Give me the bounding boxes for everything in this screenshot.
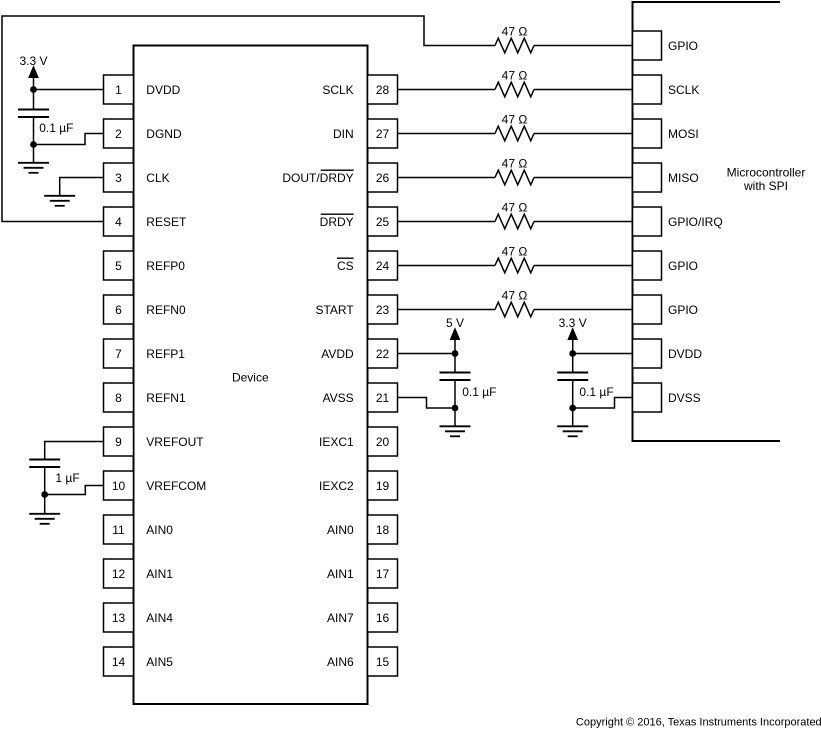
svg-text:19: 19 [376, 479, 390, 493]
wire resistor to microcontroller [534, 89, 633, 91]
wire resistor to microcontroller [534, 177, 633, 179]
capacitor C3 0.1 &#181;F [557, 373, 613, 400]
wire to microcontroller DVDD [573, 353, 633, 355]
pin 14 box [104, 647, 134, 676]
wire resistor to microcontroller [534, 309, 633, 311]
pin 17 box [368, 559, 398, 588]
wire resistor to microcontroller [534, 265, 633, 267]
svg-text:0.1 µF: 0.1 µF [579, 385, 613, 399]
svg-text:47 Ω: 47 Ω [502, 288, 528, 302]
microcontroller pin box MISO [633, 163, 662, 192]
svg-text:REFP0: REFP0 [146, 259, 185, 273]
pin 24 label CS [337, 258, 354, 273]
svg-text:14: 14 [112, 655, 126, 669]
pin 21 label AVSS [323, 391, 354, 405]
svg-text:AIN7: AIN7 [327, 611, 354, 625]
svg-text:26: 26 [376, 171, 390, 185]
wire to pin 1 DVDD [34, 89, 104, 91]
supply VDD2 5 V [446, 316, 464, 340]
ground GND3 [29, 514, 60, 524]
svg-text:10: 10 [112, 479, 126, 493]
svg-text:9: 9 [115, 435, 122, 449]
pin 27 label DIN [333, 127, 354, 141]
pin 28 label SCLK [322, 83, 353, 97]
wire to pin 2 DGND [34, 134, 104, 145]
svg-text:VREFCOM: VREFCOM [146, 479, 206, 493]
svg-text:GPIO: GPIO [668, 259, 698, 273]
svg-text:25: 25 [376, 215, 390, 229]
svg-text:3.3 V: 3.3 V [19, 54, 47, 68]
svg-text:0.1 µF: 0.1 µF [462, 385, 496, 399]
svg-text:DRDY: DRDY [320, 215, 354, 229]
svg-text:47 Ω: 47 Ω [502, 68, 528, 82]
svg-text:16: 16 [376, 611, 390, 625]
svg-text:DVDD: DVDD [146, 83, 180, 97]
microcontroller pin box MOSI [633, 119, 662, 148]
svg-text:8: 8 [115, 391, 122, 405]
ground GND4 [440, 426, 471, 436]
pin 16 label AIN7 [327, 611, 354, 625]
resistor R4 47 &#937; [495, 156, 534, 185]
wire 3.3V stem to C3 [572, 330, 574, 373]
pin 20 label IEXC1 [319, 435, 354, 449]
pin 1 box [104, 75, 134, 104]
svg-text:18: 18 [376, 523, 390, 537]
pin 18 box [368, 515, 398, 544]
wire pin 21 AVSS jog [398, 398, 456, 409]
wire to pin 10 VREFCOM [45, 486, 104, 495]
pin 21 box [368, 383, 398, 412]
svg-text:27: 27 [376, 127, 390, 141]
pin 23 box [368, 295, 398, 324]
microcontroller box [633, 2, 781, 441]
svg-text:3: 3 [115, 171, 122, 185]
wire resistor R1 to microcontroller GPIO [534, 45, 633, 47]
wire to microcontroller DVSS jog [573, 398, 633, 409]
pin 20 box [368, 427, 398, 456]
svg-text:AIN0: AIN0 [327, 523, 354, 537]
wire pin 27 to resistor [398, 133, 496, 135]
pin 11 box [104, 515, 134, 544]
ground GND5 [557, 426, 588, 436]
resistor R1 47 &#937; [495, 24, 534, 53]
pin 25 box [368, 207, 398, 236]
pin 22 box [368, 339, 398, 368]
svg-text:13: 13 [112, 611, 126, 625]
svg-text:RESET: RESET [146, 215, 187, 229]
pin 16 box [368, 603, 398, 632]
wire pin 9 VREFOUT to C5 [45, 442, 104, 461]
pin 12 box [104, 559, 134, 588]
svg-text:AVSS: AVSS [323, 391, 354, 405]
svg-text:3.3 V: 3.3 V [559, 316, 587, 330]
svg-text:with SPI: with SPI [743, 179, 788, 193]
svg-text:24: 24 [376, 259, 390, 273]
svg-text:AVDD: AVDD [321, 347, 354, 361]
svg-text:47 Ω: 47 Ω [502, 112, 528, 126]
pin 6 box [104, 295, 134, 324]
svg-text:AIN1: AIN1 [327, 567, 354, 581]
svg-text:AIN4: AIN4 [146, 611, 173, 625]
capacitor C1 0.1 &#181;F [18, 110, 73, 135]
svg-text:47 Ω: 47 Ω [502, 156, 528, 170]
wire pin 28 to resistor [398, 89, 496, 91]
svg-text:22: 22 [376, 347, 390, 361]
svg-text:23: 23 [376, 303, 390, 317]
svg-text:4: 4 [115, 215, 122, 229]
svg-text:REFP1: REFP1 [146, 347, 185, 361]
svg-text:IEXC1: IEXC1 [319, 435, 354, 449]
svg-text:REFN0: REFN0 [146, 303, 186, 317]
wire pin 26 to resistor [398, 177, 496, 179]
wire 5V stem to C2 [454, 330, 456, 373]
svg-text:GPIO: GPIO [668, 303, 698, 317]
svg-text:1 µF: 1 µF [55, 471, 79, 485]
svg-text:VREFOUT: VREFOUT [146, 435, 204, 449]
svg-text:15: 15 [376, 655, 390, 669]
wire pin 3 CLK to ground [60, 178, 104, 197]
wire to pin 22 AVDD [398, 353, 456, 355]
pin 25 label DRDY [320, 214, 354, 229]
wire pin 25 to resistor [398, 221, 496, 223]
svg-text:AIN1: AIN1 [146, 567, 173, 581]
pin 26 label DOUT-DRDY [282, 170, 353, 185]
supply VDD1 3.3 V [19, 54, 47, 78]
pin 5 box [104, 251, 134, 280]
svg-text:DIN: DIN [333, 127, 354, 141]
pin 28 box [368, 75, 398, 104]
svg-text:Device: Device [232, 370, 269, 384]
device U1 box [134, 46, 368, 705]
pin 10 box [104, 471, 134, 500]
svg-text:Microcontroller: Microcontroller [727, 165, 806, 179]
resistor R3 47 &#937; [495, 112, 534, 141]
ground GND1 [18, 163, 49, 173]
svg-text:2: 2 [115, 127, 122, 141]
pin 13 box [104, 603, 134, 632]
wire C3 to ground [572, 380, 574, 427]
svg-text:DOUT/DRDY: DOUT/DRDY [282, 171, 353, 185]
svg-text:47 Ω: 47 Ω [502, 200, 528, 214]
microcontroller pin box GPIO [633, 295, 662, 324]
junction J2 [30, 141, 37, 148]
pin 24 box [368, 251, 398, 280]
svg-text:1: 1 [115, 83, 122, 97]
wire C2 to ground [454, 380, 456, 427]
svg-text:17: 17 [376, 567, 390, 581]
resistor R5 47 &#937; [495, 200, 534, 229]
microcontroller pin box GPIO [633, 31, 662, 60]
pin 23 label START [315, 303, 354, 317]
svg-text:DVDD: DVDD [668, 347, 702, 361]
wire pin 24 to resistor [398, 265, 496, 267]
pin 15 box [368, 647, 398, 676]
pin 2 box [104, 119, 134, 148]
svg-text:START: START [315, 303, 354, 317]
svg-text:5 V: 5 V [446, 316, 464, 330]
pin 15 label AIN6 [327, 655, 354, 669]
svg-text:11: 11 [112, 523, 125, 537]
svg-text:5: 5 [115, 259, 122, 273]
svg-text:6: 6 [115, 303, 122, 317]
wire pin 23 to resistor [398, 309, 496, 311]
ground GND2 [44, 196, 75, 206]
microcontroller pin box DVSS [633, 383, 662, 412]
svg-text:47 Ω: 47 Ω [502, 244, 528, 258]
pin 18 label AIN0 [327, 523, 354, 537]
svg-text:GPIO: GPIO [668, 39, 698, 53]
pin 8 box [104, 383, 134, 412]
resistor R6 47 &#937; [495, 244, 534, 273]
svg-text:AIN5: AIN5 [146, 655, 173, 669]
svg-text:AIN0: AIN0 [146, 523, 173, 537]
pin 4 box [104, 207, 134, 236]
pin 9 box [104, 427, 134, 456]
pin 3 box [104, 163, 134, 192]
pin 19 box [368, 471, 398, 500]
svg-text:CLK: CLK [146, 171, 169, 185]
svg-text:DGND: DGND [146, 127, 182, 141]
svg-text:DVSS: DVSS [668, 391, 701, 405]
wire 3.3V stem to C1 [33, 68, 35, 110]
microcontroller pin box SCLK [633, 75, 662, 104]
svg-text:AIN6: AIN6 [327, 655, 354, 669]
svg-text:IEXC2: IEXC2 [319, 479, 354, 493]
svg-text:SCLK: SCLK [322, 83, 353, 97]
pin 22 label AVDD [321, 347, 354, 361]
svg-text:REFN1: REFN1 [146, 391, 186, 405]
svg-text:0.1 µF: 0.1 µF [39, 121, 73, 135]
junction J1 [30, 86, 37, 93]
svg-text:MOSI: MOSI [668, 127, 699, 141]
svg-text:20: 20 [376, 435, 390, 449]
svg-text:CS: CS [337, 259, 354, 273]
wire RESET loop pin 4 to top [2, 16, 495, 222]
pin 17 label AIN1 [327, 567, 354, 581]
svg-text:28: 28 [376, 83, 390, 97]
svg-text:Copyright © 2016, Texas Instru: Copyright © 2016, Texas Instruments Inco… [576, 717, 821, 729]
svg-text:12: 12 [112, 567, 126, 581]
svg-text:47 Ω: 47 Ω [502, 24, 528, 38]
capacitor C5 1 &#181;F [29, 460, 79, 486]
svg-text:SCLK: SCLK [668, 83, 699, 97]
wire resistor to microcontroller [534, 221, 633, 223]
pin 26 box [368, 163, 398, 192]
wire C1 to ground [33, 117, 35, 164]
pin 19 label IEXC2 [319, 479, 354, 493]
wire C5 to ground [44, 467, 46, 515]
microcontroller pin box DVDD [633, 339, 662, 368]
junction J5 [452, 405, 459, 412]
pin 27 box [368, 119, 398, 148]
junction J6 [569, 350, 576, 357]
junction J3 [41, 491, 48, 498]
svg-text:GPIO/IRQ: GPIO/IRQ [668, 215, 723, 229]
supply VDD3 3.3 V [559, 316, 587, 340]
microcontroller label [727, 165, 806, 193]
svg-text:21: 21 [376, 391, 390, 405]
resistor R2 47 &#937; [495, 68, 534, 96]
microcontroller pin box GPIO-IRQ [633, 207, 662, 236]
junction J7 [569, 405, 576, 412]
wire resistor to microcontroller [534, 133, 633, 135]
svg-text:7: 7 [115, 347, 122, 361]
pin 7 box [104, 339, 134, 368]
junction J4 [452, 350, 459, 357]
capacitor C2 0.1 &#181;F [440, 373, 497, 400]
resistor R7 47 &#937; [495, 288, 534, 317]
svg-text:MISO: MISO [668, 171, 699, 185]
microcontroller pin box GPIO [633, 251, 662, 280]
